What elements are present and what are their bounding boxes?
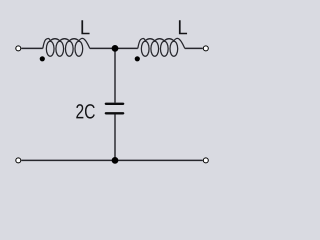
terminal top-right [203,46,208,51]
label L of inductor L2 [179,20,187,34]
wire top-right segment [185,47,203,49]
label L of inductor L1 [81,20,89,34]
capacitor 2C bottom plate [106,112,123,114]
wire top-left segment [21,47,43,49]
terminal bottom-left [16,158,21,163]
inductor L1 (left coil) [43,38,90,56]
wire bottom rail [21,159,203,161]
wire shunt lower (capacitor to node B) [114,115,116,161]
wire node A to L2 [115,47,138,49]
inductor L2 (right coil) [138,38,185,56]
node B junction dot (bottom) [112,157,119,164]
capacitor 2C top plate [106,103,123,105]
value label 2C of capacitor [76,104,83,118]
polarity dot of L1 [40,56,45,61]
wire shunt upper (node A to capacitor) [114,48,116,102]
polarity dot of L2 [135,56,140,61]
node A junction dot (top) [112,45,119,52]
wire between L1 and node A [90,47,115,49]
terminal bottom-right [203,158,208,163]
terminal top-left [16,46,21,51]
